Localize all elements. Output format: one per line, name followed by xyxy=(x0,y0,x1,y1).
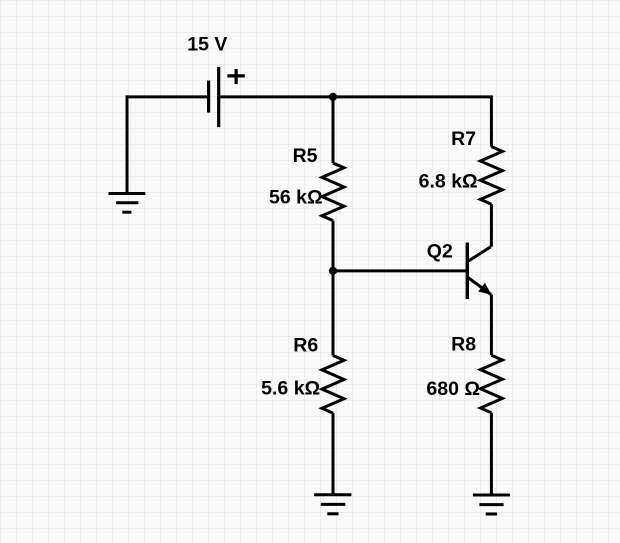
svg-text:6.8 kΩ: 6.8 kΩ xyxy=(419,170,478,192)
svg-text:680 Ω: 680 Ω xyxy=(426,378,480,400)
svg-text:15 V: 15 V xyxy=(187,33,227,55)
svg-text:R5: R5 xyxy=(293,145,318,167)
svg-text:56 kΩ: 56 kΩ xyxy=(269,186,323,208)
svg-text:5.6 kΩ: 5.6 kΩ xyxy=(261,377,320,399)
svg-text:R8: R8 xyxy=(451,334,476,356)
svg-text:R6: R6 xyxy=(293,334,318,356)
svg-text:R7: R7 xyxy=(451,128,476,150)
svg-text:Q2: Q2 xyxy=(427,240,453,262)
